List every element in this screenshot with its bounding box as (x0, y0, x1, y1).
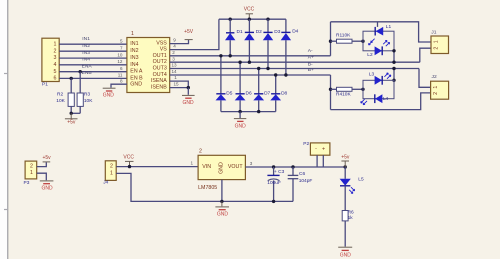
svg-text:P3: P3 (24, 180, 30, 186)
wire VSS to +5V (170, 40, 189, 44)
junction bottom rail D7 (257, 110, 260, 113)
wire IN2 (59, 50, 127, 52)
svg-text:OUT1: OUT1 (153, 53, 167, 59)
svg-text:2: 2 (434, 47, 440, 50)
svg-text:J4: J4 (103, 179, 108, 185)
svg-text:+: + (322, 146, 325, 152)
svg-text:3: 3 (54, 55, 57, 61)
svg-text:2: 2 (433, 92, 439, 95)
junction C3 top (272, 165, 275, 168)
svg-text:6: 6 (54, 75, 57, 81)
wire J4 pin2 to VIN (116, 166, 198, 168)
wire bottom rail (221, 111, 276, 113)
svg-text:D8: D8 (281, 90, 287, 96)
svg-text:R2: R2 (57, 92, 63, 98)
svg-text:D4: D4 (292, 29, 298, 35)
power +5v at L5 (341, 155, 350, 168)
diode D3 (263, 19, 281, 70)
wire OUT4 B+ (170, 74, 331, 76)
junction A resistor left (329, 40, 332, 43)
wire IN4 (59, 64, 127, 66)
svg-text:R110K: R110K (336, 33, 351, 39)
junction top rail D1 (229, 18, 232, 21)
power +5V at VSS (184, 29, 194, 40)
svg-text:GND: GND (235, 123, 247, 129)
svg-text:1: 1 (110, 170, 113, 176)
svg-text:6: 6 (120, 66, 123, 71)
power +5v below resistors (65, 113, 78, 125)
svg-text:10: 10 (117, 52, 123, 57)
wire R2-R3 join (71, 112, 80, 114)
svg-text:L2: L2 (367, 52, 373, 58)
svg-text:L4: L4 (383, 96, 389, 102)
wire VOUT rail (245, 166, 345, 168)
junction loop B top (392, 79, 395, 82)
wire OUT3 B- (170, 68, 419, 70)
sheet ruler tick (4, 209, 8, 211)
junction B resistor right (361, 88, 364, 91)
wire P3 pin1 (37, 173, 47, 180)
power VCC at J4 (123, 155, 134, 167)
svg-text:L1: L1 (386, 24, 392, 30)
junction ISEN (187, 86, 190, 89)
svg-text:D6: D6 (246, 90, 252, 96)
wire ENB (59, 77, 127, 79)
power VCC top (244, 7, 255, 20)
svg-text:IN1: IN1 (82, 36, 90, 42)
svg-text:L5: L5 (358, 177, 364, 183)
ground below R6 (338, 247, 352, 258)
wire loop A to A+ (393, 51, 395, 62)
svg-text:1: 1 (30, 170, 33, 176)
voltage regulator U2 LM7805 (198, 148, 245, 191)
svg-text:OUT2: OUT2 (153, 59, 167, 65)
svg-text:IN4: IN4 (130, 62, 138, 68)
junction VCC J4 (128, 165, 131, 168)
junction C6 top (291, 165, 294, 168)
ground below diode bridge (234, 112, 246, 130)
svg-text:2: 2 (172, 50, 175, 55)
resistor R2 (56, 77, 74, 114)
sheet ruler tick (4, 73, 8, 75)
LED loop A (363, 31, 394, 51)
sheet left margin (0, 0, 8, 259)
junction regulator gnd (220, 200, 223, 203)
resistor R6 (342, 210, 354, 247)
capacitor C3 (267, 167, 284, 201)
wire VS to top rail (170, 19, 219, 49)
junction +5v node (344, 165, 347, 168)
junction loop A bottom (392, 49, 395, 52)
junction bottom rail D6 (238, 110, 241, 113)
svg-text:D2: D2 (256, 29, 262, 35)
svg-text:+5v: +5v (341, 155, 350, 161)
svg-text:2: 2 (110, 164, 113, 170)
svg-text:EN A: EN A (130, 69, 143, 75)
junction top rail VCC (248, 18, 251, 21)
LED loop B (363, 80, 394, 98)
connector J1 (431, 29, 449, 53)
junction R2R3 (70, 112, 73, 115)
wire P2 pin1 (316, 155, 318, 167)
op-amp U1 L298 body (127, 31, 170, 93)
svg-text:100uF: 100uF (267, 180, 281, 186)
svg-text:D1: D1 (237, 29, 243, 35)
wire J4 pin1 to gnd rail (116, 173, 293, 201)
ground at ISENB (182, 88, 195, 106)
diode D6 (235, 61, 252, 112)
svg-text:P2: P2 (303, 141, 309, 147)
svg-text:3: 3 (172, 56, 175, 61)
svg-text:ISENA: ISENA (151, 78, 167, 84)
svg-text:2: 2 (30, 164, 33, 170)
ground at P3 (40, 181, 54, 192)
svg-text:GND: GND (182, 100, 194, 106)
svg-text:10K: 10K (84, 98, 93, 104)
sheet border line (7, 0, 9, 259)
wire B- to J2 pin1 (419, 69, 431, 88)
power +5v at P3 (42, 155, 51, 162)
svg-text:R3: R3 (84, 92, 90, 98)
svg-text:GND: GND (340, 253, 352, 259)
svg-text:4: 4 (54, 62, 57, 68)
wire ENA (59, 71, 127, 73)
svg-text:10K: 10K (56, 98, 65, 104)
svg-text:VCC: VCC (123, 155, 134, 161)
diode D1 (225, 19, 243, 57)
wire ISENB (170, 87, 189, 89)
svg-text:IN3: IN3 (130, 55, 138, 61)
wire bottom loop B (331, 93, 431, 110)
svg-text:OUT3: OUT3 (153, 66, 167, 72)
LED L5 (340, 167, 364, 211)
diode D7 (253, 67, 270, 112)
diode D2 (244, 19, 262, 64)
wire ISENA (170, 81, 189, 88)
svg-text:5: 5 (120, 38, 123, 43)
connector P1 (42, 38, 59, 87)
svg-text:GND: GND (130, 81, 142, 87)
wire A- riser (330, 22, 332, 56)
ground below IC (103, 88, 116, 98)
svg-text:1: 1 (54, 41, 57, 47)
wire GND pin 8 (111, 84, 127, 87)
resistor R4 (331, 87, 364, 97)
svg-text:IN2: IN2 (130, 48, 138, 54)
svg-text:IN3: IN3 (82, 50, 90, 56)
svg-text:+5V: +5V (184, 29, 194, 35)
svg-text:L3: L3 (369, 72, 375, 78)
resistor R3 (77, 70, 93, 113)
capacitor C6 (288, 167, 313, 201)
wire OUT2 A+ (170, 61, 420, 63)
junction B resistor left (329, 88, 332, 91)
junction C3 bottom (272, 200, 275, 203)
svg-text:B+: B+ (308, 67, 314, 73)
wire OUT1 A- (170, 55, 331, 57)
svg-text:4: 4 (173, 44, 176, 49)
wire P2 pin2 (322, 155, 324, 167)
svg-text:GND: GND (41, 186, 53, 192)
svg-text:D3: D3 (274, 29, 280, 35)
diode D4 (281, 19, 299, 77)
svg-text:ENB: ENB (82, 70, 92, 76)
LED L4 (361, 94, 389, 104)
svg-text:IN1: IN1 (130, 41, 138, 47)
junction top rail D3 (266, 18, 269, 21)
ground below regulator (215, 201, 229, 217)
svg-text:R6: R6 (348, 210, 354, 216)
svg-text:IN4: IN4 (82, 57, 90, 63)
svg-text:C6: C6 (299, 171, 305, 177)
LED L3 (369, 72, 391, 85)
svg-text:J1: J1 (431, 29, 436, 35)
resistor R1 (331, 33, 364, 44)
junction A+ (392, 61, 395, 64)
svg-text:B-: B- (308, 61, 313, 67)
wire P3 pin2 (37, 162, 47, 166)
svg-text:D7: D7 (264, 90, 270, 96)
svg-text:VCC: VCC (244, 7, 255, 13)
diode D5 (216, 54, 233, 112)
svg-text:104pF: 104pF (299, 178, 313, 184)
svg-text:12: 12 (117, 59, 123, 64)
svg-text:1: 1 (433, 86, 439, 89)
wire L1 stub (377, 22, 379, 27)
junction B- (392, 67, 395, 70)
svg-text:A+: A+ (308, 55, 314, 61)
svg-text:J2: J2 (432, 74, 437, 80)
wire B+ riser (330, 75, 332, 110)
svg-text:P1: P1 (42, 81, 48, 87)
wire regulator GND pin (221, 180, 223, 202)
svg-text:11: 11 (118, 73, 123, 78)
svg-text:-: - (315, 146, 317, 152)
wire loop B to B- (393, 69, 395, 81)
svg-text:8: 8 (120, 79, 123, 84)
svg-text:ENA: ENA (82, 63, 93, 69)
svg-text:+5v: +5v (42, 155, 51, 161)
LED L2 (367, 40, 389, 57)
wire IN3 (59, 57, 127, 59)
svg-text:R410K: R410K (336, 92, 351, 98)
wire top rail VCC (219, 18, 286, 20)
svg-text:VS: VS (160, 47, 168, 53)
svg-text:GND: GND (219, 162, 225, 174)
connector J2 (431, 74, 449, 99)
svg-text:OUT4: OUT4 (153, 72, 167, 78)
svg-text:9: 9 (173, 38, 176, 43)
svg-text:ISENB: ISENB (151, 85, 167, 91)
junction A resistor right (361, 40, 364, 43)
svg-text:+5v: +5v (67, 119, 76, 125)
svg-text:3: 3 (250, 161, 253, 166)
svg-text:1: 1 (131, 31, 134, 37)
svg-text:GND: GND (103, 93, 115, 99)
svg-text:1: 1 (434, 40, 440, 43)
svg-text:13: 13 (171, 63, 177, 68)
svg-text:14: 14 (171, 69, 177, 74)
svg-text:VOUT: VOUT (228, 164, 243, 170)
connector P2 (303, 141, 330, 155)
svg-text:LM7805: LM7805 (198, 185, 217, 191)
LED L1 (369, 24, 392, 45)
svg-text:1k: 1k (348, 215, 354, 221)
diode D8 (270, 73, 287, 111)
svg-text:2: 2 (199, 148, 202, 154)
svg-text:GND: GND (217, 211, 229, 217)
wire A+ to J1 pin2 (420, 48, 431, 62)
svg-text:+ C3: + C3 (274, 169, 285, 175)
connector J4 (103, 161, 116, 186)
svg-text:D5: D5 (226, 90, 232, 96)
svg-text:IN2: IN2 (82, 43, 90, 49)
connector P3 (24, 161, 37, 186)
svg-text:VIN: VIN (202, 164, 211, 170)
svg-text:15: 15 (173, 81, 179, 86)
svg-text:5: 5 (54, 69, 57, 75)
svg-text:1: 1 (191, 161, 194, 166)
svg-text:7: 7 (120, 45, 123, 50)
svg-text:A-: A- (308, 48, 313, 54)
wire IN1 (59, 43, 127, 45)
svg-text:2: 2 (54, 48, 57, 54)
wire top loop A (331, 22, 432, 42)
